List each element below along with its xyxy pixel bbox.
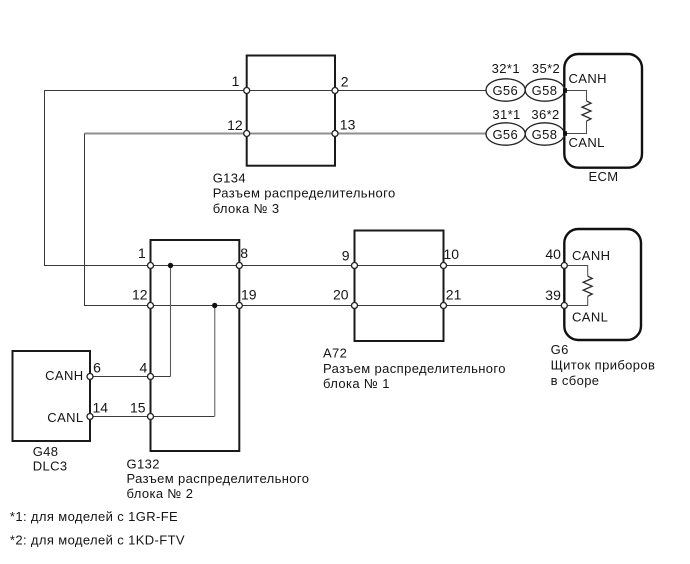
connector oval G56 (CANH) <box>486 79 525 101</box>
svg-text:G132: G132 <box>127 456 160 471</box>
wire CANL (gray): ECM/G56 row through G134 pins 13,12 <box>85 133 488 135</box>
svg-text:G56: G56 <box>492 127 518 142</box>
svg-text:2: 2 <box>341 73 349 89</box>
svg-text:31*1: 31*1 <box>492 107 520 122</box>
svg-text:10: 10 <box>444 246 460 262</box>
svg-text:1: 1 <box>232 73 240 89</box>
svg-text:CANH: CANH <box>569 71 607 86</box>
connector oval G56 (CANL) <box>486 123 525 145</box>
pin circle G134-1 <box>244 88 250 94</box>
pin circle G134-12 <box>244 131 250 137</box>
pin circle G48-14 <box>87 414 93 420</box>
terminating resistor inside G6 (wire + zigzag) <box>564 266 587 306</box>
wire vertical inside G132 (gray): junction on pin19 row down to pin 15 <box>214 306 216 417</box>
wire CANL: down from G134 pin 12 and across G132 pin12, A72 pins 20,21 to G6 pin 39 <box>85 134 565 306</box>
svg-text:32*1: 32*1 <box>492 61 520 76</box>
svg-text:4: 4 <box>140 359 148 375</box>
ECM (box) <box>564 54 642 168</box>
DLC3 connector G48 (box) <box>13 351 91 441</box>
pin circle G6-40 <box>561 263 567 269</box>
svg-text:G48: G48 <box>33 444 59 459</box>
combination meter G6 (box) <box>564 229 641 340</box>
svg-text:39: 39 <box>545 287 561 303</box>
pin circle A72-9 <box>352 263 358 269</box>
ECM pin square CANL <box>563 131 567 136</box>
pin circle G132-8 <box>236 263 242 269</box>
wire vertical inside G132: junction on pin1 row down to pin 4 <box>170 266 172 377</box>
svg-text:DLC3: DLC3 <box>33 459 68 474</box>
svg-text:блока № 2: блока № 2 <box>127 486 194 501</box>
svg-text:CANL: CANL <box>47 410 83 425</box>
svg-text:G56: G56 <box>492 83 518 98</box>
svg-text:20: 20 <box>333 287 349 303</box>
svg-text:Щиток приборов: Щиток приборов <box>551 358 656 373</box>
svg-text:CANL: CANL <box>569 135 605 150</box>
pin circle G48-6 <box>87 374 93 380</box>
svg-text:19: 19 <box>241 286 257 302</box>
junction dot on G132 pin1 row <box>168 263 173 268</box>
svg-text:8: 8 <box>240 245 248 261</box>
junction block connector G134 (box) <box>247 56 335 166</box>
svg-text:G58: G58 <box>532 83 558 98</box>
svg-text:ECM: ECM <box>588 169 618 184</box>
svg-text:12: 12 <box>132 286 148 302</box>
svg-text:21: 21 <box>446 287 462 303</box>
svg-text:Разъем распределительного: Разъем распределительного <box>213 186 396 201</box>
junction block connector A72 (box) <box>355 231 444 342</box>
junction block connector G132 (box) <box>151 240 240 451</box>
svg-text:блока № 3: блока № 3 <box>213 201 280 216</box>
pin circle G132-1 <box>148 263 154 269</box>
wire CANL: G48 pin 14 to G132 pin 15 <box>90 416 215 418</box>
pin circle A72-20 <box>352 303 358 309</box>
pin circle A72-21 <box>441 303 447 309</box>
connector oval G58 (CANL) <box>525 123 564 145</box>
svg-text:*2: для моделей с 1KD-FTV: *2: для моделей с 1KD-FTV <box>10 533 185 548</box>
wire CANH: ECM/G56 row through G134 pins 2,1 then down and across G132 pin1, A72 pins 9,10 to G6 pin 40 <box>45 91 565 266</box>
svg-text:12: 12 <box>227 117 243 133</box>
svg-text:9: 9 <box>342 247 350 263</box>
pin circle G134-13 <box>332 131 338 137</box>
svg-text:15: 15 <box>130 400 146 416</box>
svg-text:CANL: CANL <box>572 310 608 325</box>
junction dot on G132 pin19 row <box>212 303 217 308</box>
svg-text:A72: A72 <box>323 346 347 361</box>
svg-text:35*2: 35*2 <box>532 61 560 76</box>
svg-text:G134: G134 <box>213 170 246 185</box>
svg-text:1: 1 <box>138 245 146 261</box>
pin circle G132-12 <box>148 303 154 309</box>
svg-text:13: 13 <box>340 116 356 132</box>
svg-text:36*2: 36*2 <box>531 107 559 122</box>
pin circle G134-2 <box>332 88 338 94</box>
svg-text:*1: для моделей с 1GR-FE: *1: для моделей с 1GR-FE <box>10 509 178 524</box>
terminating resistor inside ECM (wire + zigzag) <box>566 91 587 134</box>
pin circle G6-39 <box>561 303 567 309</box>
svg-text:в сборе: в сборе <box>551 373 600 388</box>
svg-text:G6: G6 <box>551 342 569 357</box>
svg-text:6: 6 <box>93 359 101 375</box>
svg-text:блока № 1: блока № 1 <box>323 376 390 391</box>
pin circle G132-15 <box>148 414 154 420</box>
wire CANH: G48 pin 6 to G132 pin 4 <box>90 376 171 378</box>
ECM pin square CANH <box>563 88 567 93</box>
pin circle A72-10 <box>441 263 447 269</box>
pin circle G132-4 <box>148 374 154 380</box>
svg-text:CANH: CANH <box>572 248 610 263</box>
svg-text:40: 40 <box>545 246 561 262</box>
svg-text:Разъем распределительного: Разъем распределительного <box>323 361 506 376</box>
svg-text:CANH: CANH <box>45 368 83 383</box>
svg-text:Разъем распределительного: Разъем распределительного <box>127 471 310 486</box>
pin circle G132-19 <box>236 303 242 309</box>
svg-text:14: 14 <box>93 400 109 416</box>
svg-text:G58: G58 <box>532 127 558 142</box>
connector oval G58 (CANH) <box>525 79 564 101</box>
